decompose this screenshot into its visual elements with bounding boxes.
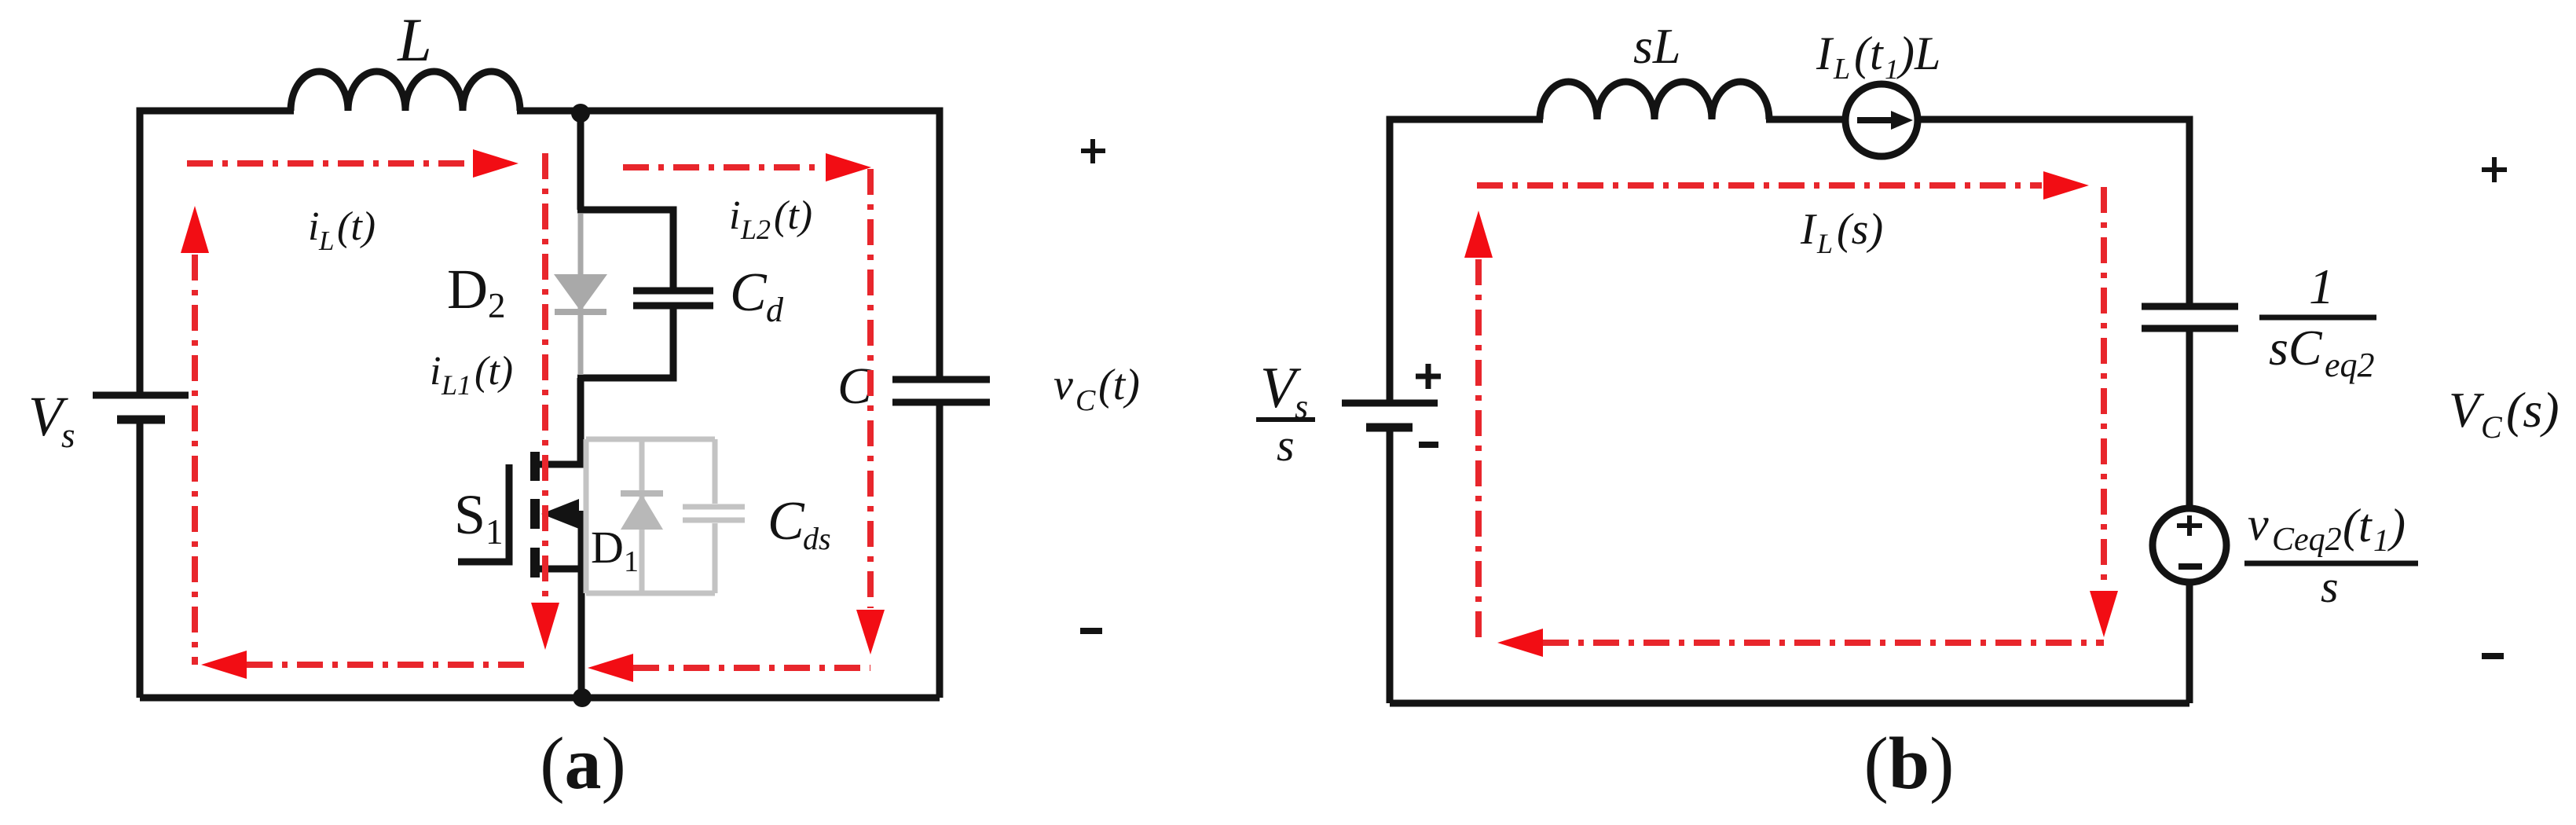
wire: drain lead [535,378,581,464]
wire: D2/Cd branch top + Cd upper lead [577,210,673,291]
svg-text:(s): (s) [2506,382,2560,438]
current loop iL2(t): top dashed line [623,164,824,170]
svg-text:2: 2 [488,286,506,325]
svg-text:d: d [766,291,784,329]
svg-text:1: 1 [1885,53,1899,85]
current loop iL2(t): bottom dashed line [633,665,870,671]
svg-text:1: 1 [486,512,504,552]
svg-text:(b): (b) [1864,723,1955,805]
svg-text:(t): (t) [475,349,513,394]
svg-text:D: D [591,522,624,573]
current loop IL(s): down arrowhead [2090,591,2118,637]
svg-text:L1: L1 [441,369,471,401]
label + output (b) [2482,157,2507,182]
wire: (b) bottom rail [1390,700,2189,707]
current loop IL(s): up arrowhead [1464,211,1493,258]
svg-text:sL: sL [1633,18,1681,74]
current loop IL(s): right vertical dashed line [2101,187,2107,589]
svg-text:L2: L2 [740,214,771,245]
wire: source lead down to bottom rail [578,511,585,698]
svg-text:v: v [1053,361,1073,409]
svg-text:1: 1 [2373,522,2389,558]
inductor sL [1540,82,1769,119]
svg-text:(t): (t) [337,204,376,249]
current loop iL(t): top dashed line [187,160,471,167]
current loop iL2(t): down arrowhead [856,610,885,654]
svg-text:L: L [318,225,334,256]
inductor L [291,71,520,111]
svg-text:(t): (t) [1098,361,1140,409]
diode D1 + capacitor Cds snubber box [586,439,715,593]
current loop iL2(t): left arrowhead [588,654,633,682]
current loop IL(s): left vertical dashed line [1475,259,1482,643]
label battery + [1416,364,1441,389]
wire: (a) right lower segment [936,402,944,698]
node: switch-node junction [571,104,590,123]
capacitor C [892,379,990,402]
current loop IL(s): bottom dashed line [1543,640,2104,646]
svg-text:eq2: eq2 [2325,346,2375,384]
svg-text:): ) [2387,500,2406,552]
wire: capacitor to voltage source [2186,328,2193,511]
node: bottom junction [573,688,592,707]
current loop iL(t): up arrowhead [181,206,209,253]
svg-text:)L: )L [1896,27,1940,79]
label battery - [1419,442,1438,448]
svg-text:s: s [2321,561,2339,612]
current source IL(t1)L [1845,84,1918,156]
diode D2 [554,214,607,375]
current loop IL(s): right arrowhead [2043,171,2089,200]
svg-text:C: C [730,262,768,323]
current loop iL1(t): down arrowhead [531,603,559,650]
svg-text:L: L [1816,228,1833,259]
svg-text:i: i [308,204,319,249]
transistor S1 (MOSFET) [458,452,581,577]
current loop IL(s): left arrowhead [1497,629,1543,657]
svg-text:v: v [2248,498,2269,550]
capacitor Cds [683,507,745,520]
current loop IL(s): top dashed line [1477,182,2042,189]
capacitor Cd [633,288,713,295]
wire: (a) bottom rail [140,695,940,702]
svg-text:D: D [447,258,488,321]
current loop iL2(t): right arrowhead [826,153,871,181]
svg-text:L: L [1833,53,1850,86]
svg-text:i: i [729,193,740,238]
current loop iL(t): bottom dashed line [247,662,525,668]
svg-text:C: C [1075,384,1096,417]
label Vs/s fraction [1256,356,1315,471]
label vCeq2(t1)/s fraction [2244,498,2418,612]
svg-text:s: s [61,416,75,455]
wire: (a) left lower segment [137,423,144,698]
label 1/sCeq2 fraction [2259,258,2376,384]
wire: (b) left upper + top-left segment [1390,119,1543,400]
svg-text:(t): (t) [774,193,812,238]
wire: (b) left lower segment [1387,431,1394,703]
svg-text:(t: (t [1854,27,1884,79]
svg-text:Ceq2: Ceq2 [2272,522,2342,558]
wire: inductor to current source [1766,116,1848,123]
svg-text:(s): (s) [1837,205,1883,254]
current loop iL1(t): vertical dashed line [542,153,548,600]
svg-text:(a): (a) [540,723,626,805]
svg-text:S: S [454,483,486,546]
svg-text:I: I [1816,27,1834,79]
wire: Cd lower lead + branch bottom [577,306,673,378]
svg-text:C: C [768,491,805,552]
current loop iL(t): right arrowhead [473,149,518,178]
label - output (a) [1080,628,1102,634]
svg-text:I: I [1800,205,1817,254]
svg-text:s: s [1277,420,1295,471]
svg-text:sC: sC [2269,320,2323,376]
wire: junction down to D2/Cd branch [577,113,584,210]
svg-text:1: 1 [2309,258,2334,314]
battery Vs [93,395,189,420]
wire: voltage source to bottom rail [2186,582,2193,703]
wire: (a) left upper + top-left segment [140,111,294,393]
svg-text:(t: (t [2343,500,2373,552]
label + output (a) [1081,139,1105,163]
voltage source vCeq2(t1)/s [2153,508,2226,582]
svg-text:ds: ds [803,521,831,556]
current loop iL(t): left dashed line [192,255,198,665]
battery Vs/s [1342,403,1438,427]
svg-text:1: 1 [624,545,639,578]
svg-text:C: C [2481,409,2503,445]
current loop iL(t): left arrowhead [201,651,247,679]
current loop iL2(t): right vertical dashed line [867,169,874,608]
label - output (b) [2482,653,2504,659]
svg-text:i: i [430,349,441,394]
diode D1 [621,439,663,593]
svg-text:L: L [397,5,431,74]
wire: (a) top-right segment [517,111,940,376]
wire: (b) top-right segment [1915,119,2189,303]
capacitor 1/sCeq2 [2142,306,2238,328]
